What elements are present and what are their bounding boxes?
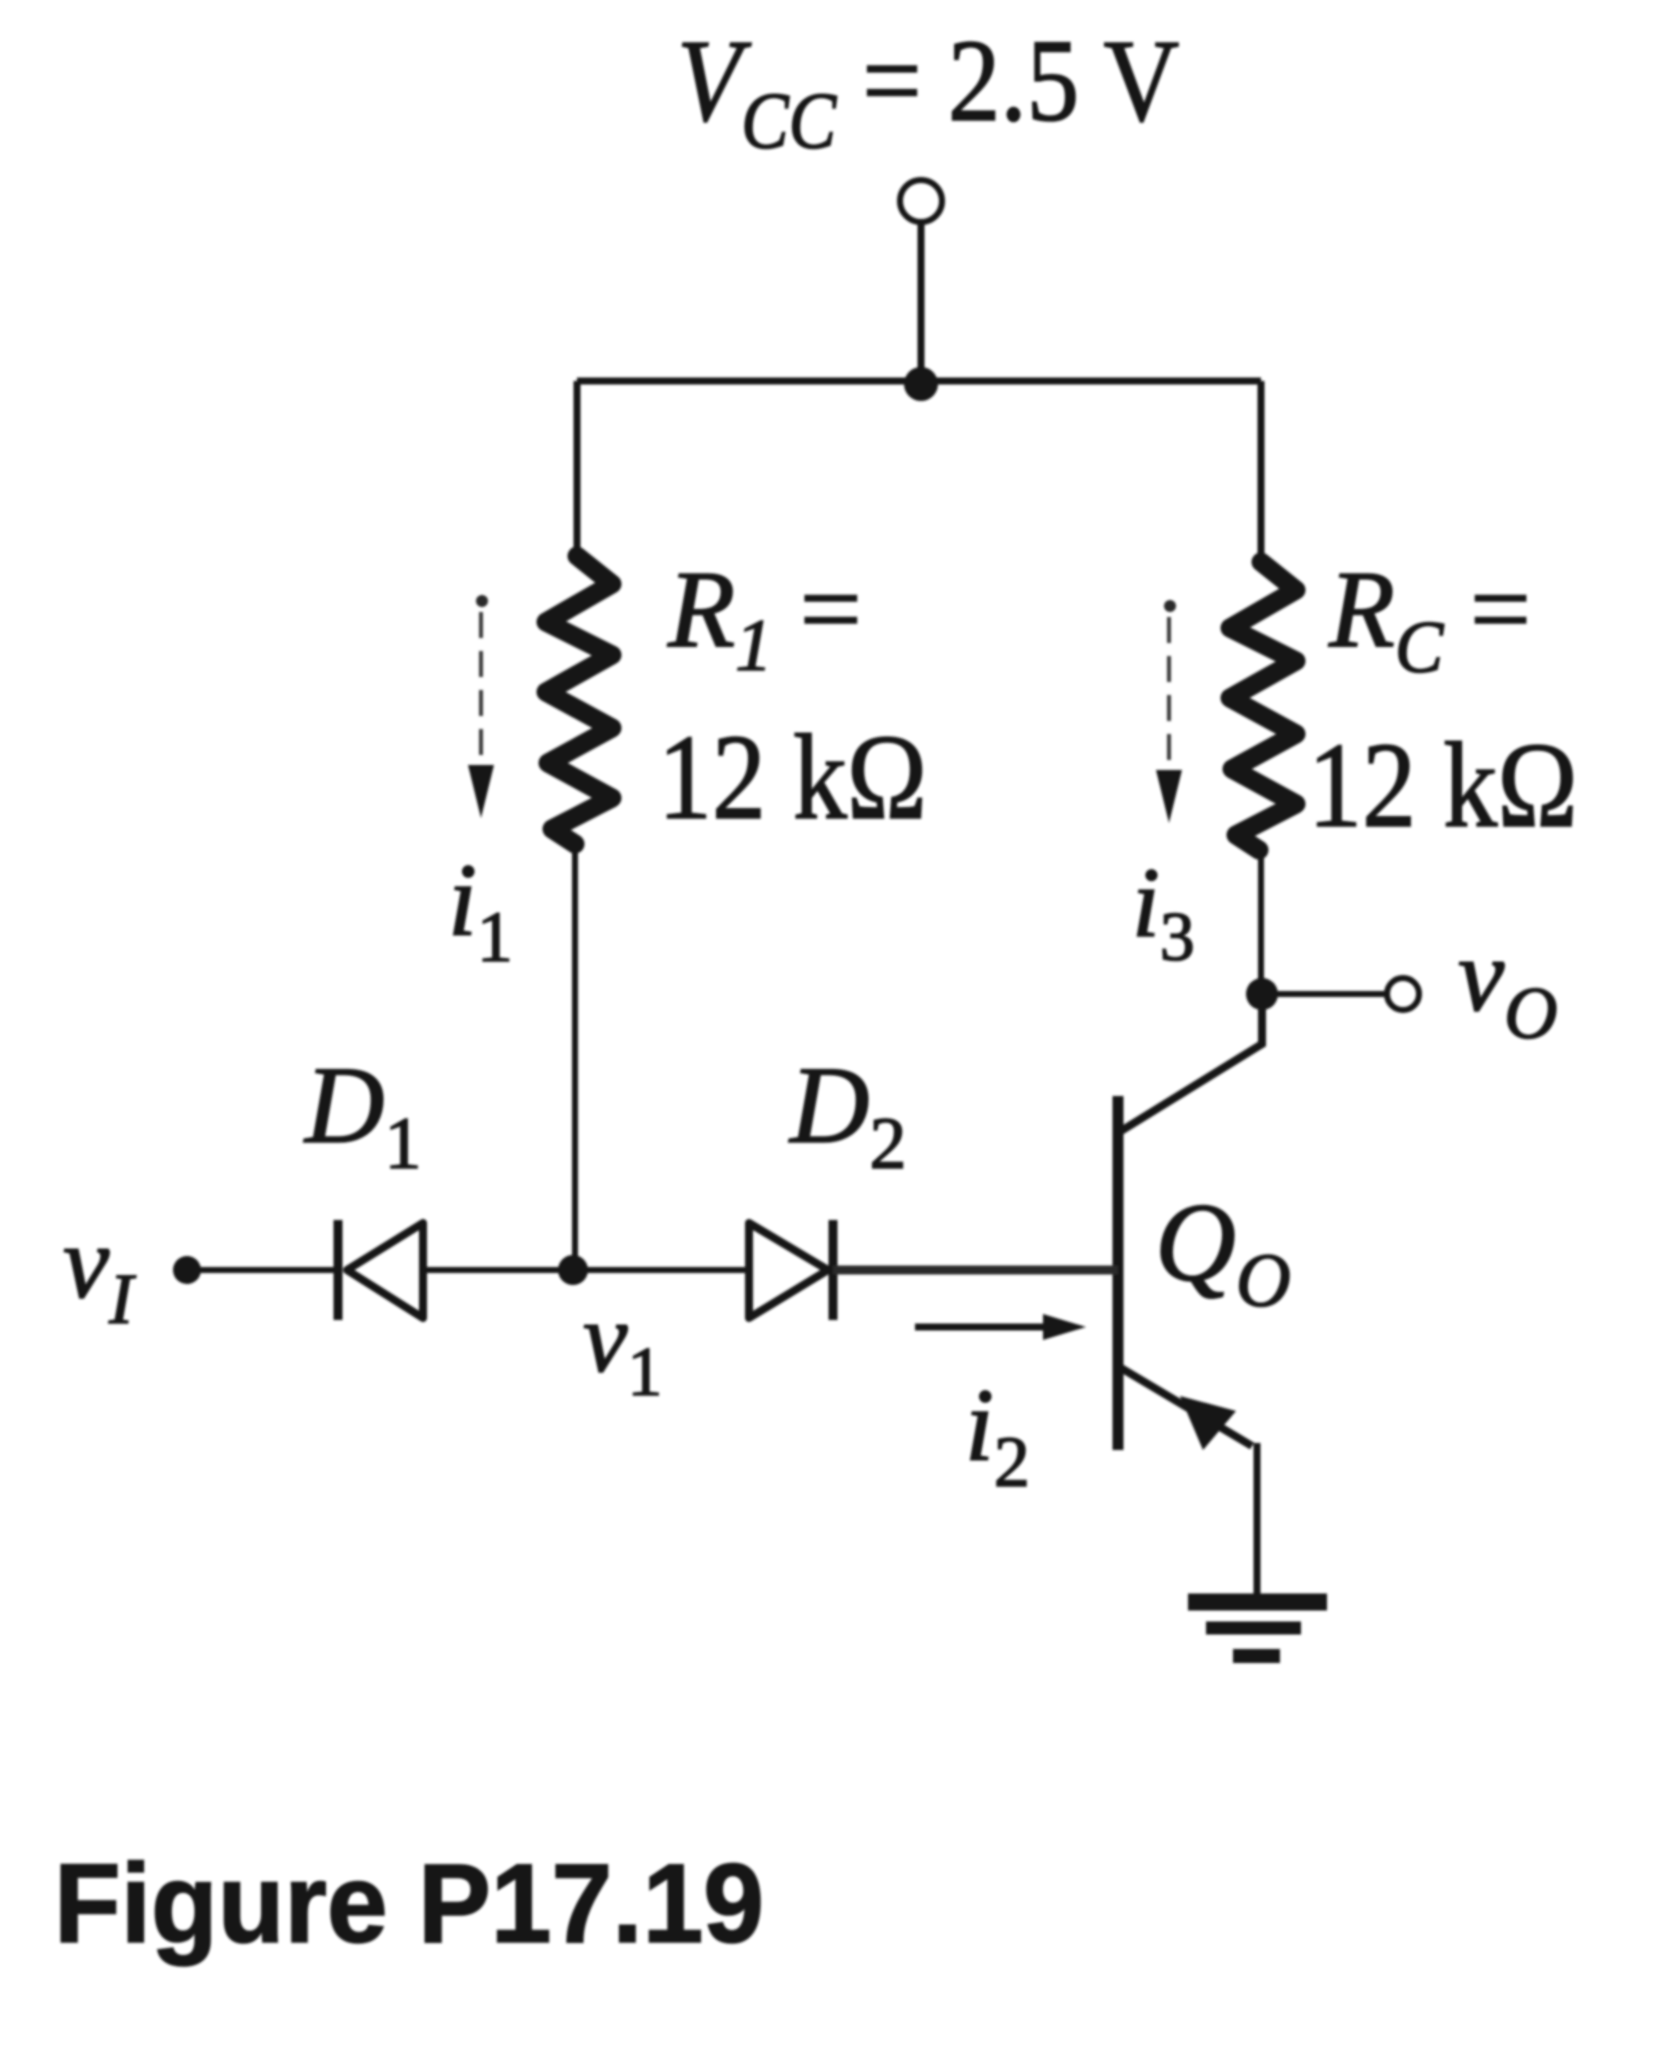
resistor RC <box>1230 562 1296 850</box>
label RC = <box>1328 548 1531 688</box>
svg-text:vO: vO <box>1458 918 1558 1055</box>
svg-text:12 kΩ: 12 kΩ <box>658 709 927 845</box>
wire VCC terminal to top rail <box>918 219 925 381</box>
transistor Q0 emitter wire <box>1121 1368 1252 1446</box>
svg-text:QO: QO <box>1155 1181 1291 1323</box>
wire D1 to node v1 <box>423 1267 573 1273</box>
wire R1 to node v1 <box>572 844 578 1270</box>
svg-text:Figure P17.19: Figure P17.19 <box>54 1842 764 1967</box>
wire D2 to base <box>833 1266 1118 1275</box>
transistor Q0 base bar <box>1113 1096 1124 1450</box>
VCC terminal <box>900 180 942 222</box>
emitter arrowhead <box>1180 1396 1236 1450</box>
node v1 <box>558 1255 588 1285</box>
wire RC to collector node <box>1258 850 1264 994</box>
svg-text:12 kΩ: 12 kΩ <box>1308 717 1578 852</box>
svg-text:D2: D2 <box>788 1044 906 1185</box>
input terminal dot <box>173 1256 201 1284</box>
svg-text:i3: i3 <box>1132 847 1195 976</box>
svg-text:R1 =: R1 = <box>667 548 862 687</box>
wire node to vO terminal <box>1262 991 1385 997</box>
svg-text:i2: i2 <box>965 1368 1030 1502</box>
resistor R1 <box>546 556 612 844</box>
top rail wire <box>577 378 1261 385</box>
current arrow i2 <box>915 1324 1048 1331</box>
label VCC = 2.5 V <box>677 15 1179 166</box>
current arrow i1 <box>476 595 488 607</box>
wire input to D1 <box>187 1267 338 1273</box>
diode D1 triangle <box>347 1223 423 1318</box>
svg-text:v1: v1 <box>583 1282 662 1411</box>
diode D2 cathode bar <box>829 1220 838 1320</box>
svg-text:RC =: RC = <box>1328 548 1531 688</box>
wire emitter to ground <box>1254 1443 1261 1596</box>
node top rail junction <box>904 367 938 401</box>
svg-text:vI: vI <box>63 1205 136 1339</box>
current arrow i3 <box>1164 600 1176 612</box>
ground <box>1188 1594 1327 1611</box>
vO terminal <box>1387 978 1419 1010</box>
wire top rail to RC <box>1258 381 1265 565</box>
figure caption <box>54 1842 764 1967</box>
label R1 value 12 kOhm <box>658 709 927 845</box>
svg-text:D1: D1 <box>303 1044 421 1185</box>
diode D2 triangle <box>749 1223 828 1318</box>
diode D1 cathode bar <box>334 1220 343 1320</box>
node collector junction <box>1246 978 1278 1010</box>
svg-text:i1: i1 <box>448 843 513 977</box>
transistor Q0 collector wire <box>1121 994 1262 1131</box>
label RC value 12 kOhm <box>1308 717 1578 852</box>
svg-text:VCC = 2.5 V: VCC = 2.5 V <box>677 15 1179 166</box>
wire top rail to R1 <box>574 381 581 560</box>
wire node v1 to D2 <box>573 1267 749 1273</box>
